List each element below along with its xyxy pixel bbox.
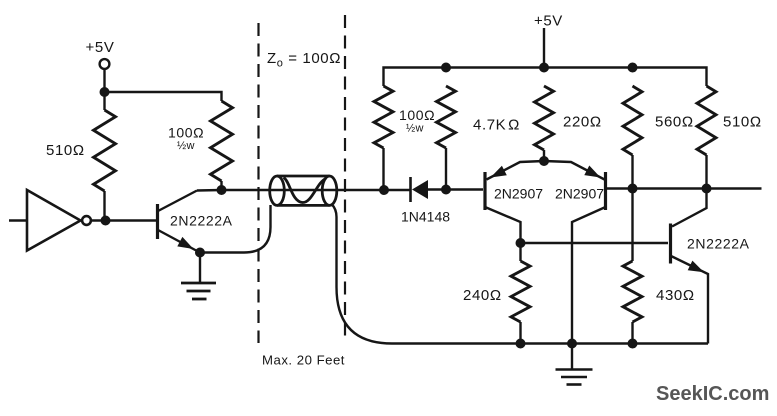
transistor Q4 2N2222A (right, NPN) [671,191,709,344]
resistor 560 ohm [623,86,642,155]
junction dot Q1 emitter node [195,248,205,258]
svg-text:2N2907: 2N2907 [555,186,604,202]
junction dot 560 ohm bottom / Q3 base node [628,184,638,194]
resistor 430 ohm [623,261,642,322]
junction dot Q1 collector / 100 ohm node [217,185,227,195]
svg-text:4.7K Ω: 4.7K Ω [473,117,520,134]
svg-text:430Ω: 430Ω [656,287,695,304]
transistor Q2 2N2907 (left of pair, PNP) [485,161,544,243]
junction dot ground stub on ground rail [567,339,577,349]
svg-text:½w: ½w [406,123,424,135]
wire +5V top rail [384,68,707,87]
svg-text:510Ω: 510Ω [46,142,85,159]
wire main signal line into cable [222,189,385,191]
boundary dashed line (right of cable) [344,15,346,343]
wire Q2 collector node to Q4 base [521,242,669,244]
svg-text:2N2222A: 2N2222A [170,213,233,229]
svg-text:100Ω: 100Ω [399,107,435,123]
ground symbol (right) [556,344,593,385]
svg-text:2N2222A: 2N2222A [687,236,750,252]
junction dot 560 ohm top [628,63,638,73]
svg-text:+5V: +5V [534,13,563,30]
svg-text:Max. 20 Feet: Max. 20 Feet [262,353,345,368]
wire Q1 collector to signal node [197,189,222,192]
resistor 4.7K ohm [437,86,456,148]
wire diode node to Q2 base [446,188,483,190]
junction dot 4.7K bottom / diode cathode node [441,185,451,195]
wire +5V terminal to junction [103,69,105,92]
junction dot +5V / 220 ohm top [539,63,549,73]
wire Q3 base to 560 ohm node [606,187,633,189]
junction dot Q2 collector / base drive node [516,238,526,248]
svg-text:SeekIC.com: SeekIC.com [656,383,769,405]
resistor 240 ohm [511,261,530,322]
junction dot at +5V rail (left) [100,87,110,97]
svg-text:2N2907: 2N2907 [494,186,543,202]
transmission line coax cable symbol [270,176,337,205]
svg-text:220Ω: 220Ω [563,114,602,131]
resistor 510 ohm (right) [697,86,716,155]
wire inverter input stub [9,219,27,221]
transistor Q1 2N2222A (left, NPN) [158,191,199,252]
junction dot 4.7K top [441,63,451,73]
svg-text:560Ω: 560Ω [655,114,694,131]
diode D1 1N4148 [384,177,446,202]
svg-text:1N4148: 1N4148 [401,209,450,225]
junction dot at inverter output node [101,216,111,226]
wire +5V to top rail [543,28,545,68]
svg-text:½w: ½w [177,140,195,152]
wire +5V rail to 100ohm half-watt resistor (left) [105,92,222,101]
wire cable shield return (left side) to Q1 emitter ground [200,205,271,253]
svg-text:510Ω: 510Ω [723,114,762,131]
junction dot 510 ohm bottom / Q4 collector / output node [702,184,712,194]
resistor 100 ohm half-watt (left) [211,101,233,181]
svg-text:100Ω: 100Ω [168,125,204,141]
junction dot 100 ohm bottom / diode anode node [379,185,389,195]
ground symbol (left) [181,253,216,300]
wire cable shield return (right side) to receiver ground rail [332,204,709,344]
resistor 220 ohm [535,86,554,150]
junction dot 220 ohm bottom / emitters node [539,156,549,166]
wire output line to right edge [633,187,762,189]
resistor 510 ohm (left) [94,110,116,191]
transistor Q3 2N2907 (right of pair, PNP) [544,161,606,344]
inverter gate U1 [27,190,81,251]
boundary dashed line (left of cable) [257,23,259,343]
resistor 100 ohm half-watt (right) [374,86,393,148]
junction dot 430 ohm bottom on ground rail [628,339,638,349]
junction dot 240 ohm bottom on ground rail [516,339,526,349]
node +5V supply terminal (left) [86,39,115,69]
svg-text:+5V: +5V [86,39,115,56]
wire inverter output to Q1 base [91,219,156,221]
svg-text:240Ω: 240Ω [463,287,502,304]
